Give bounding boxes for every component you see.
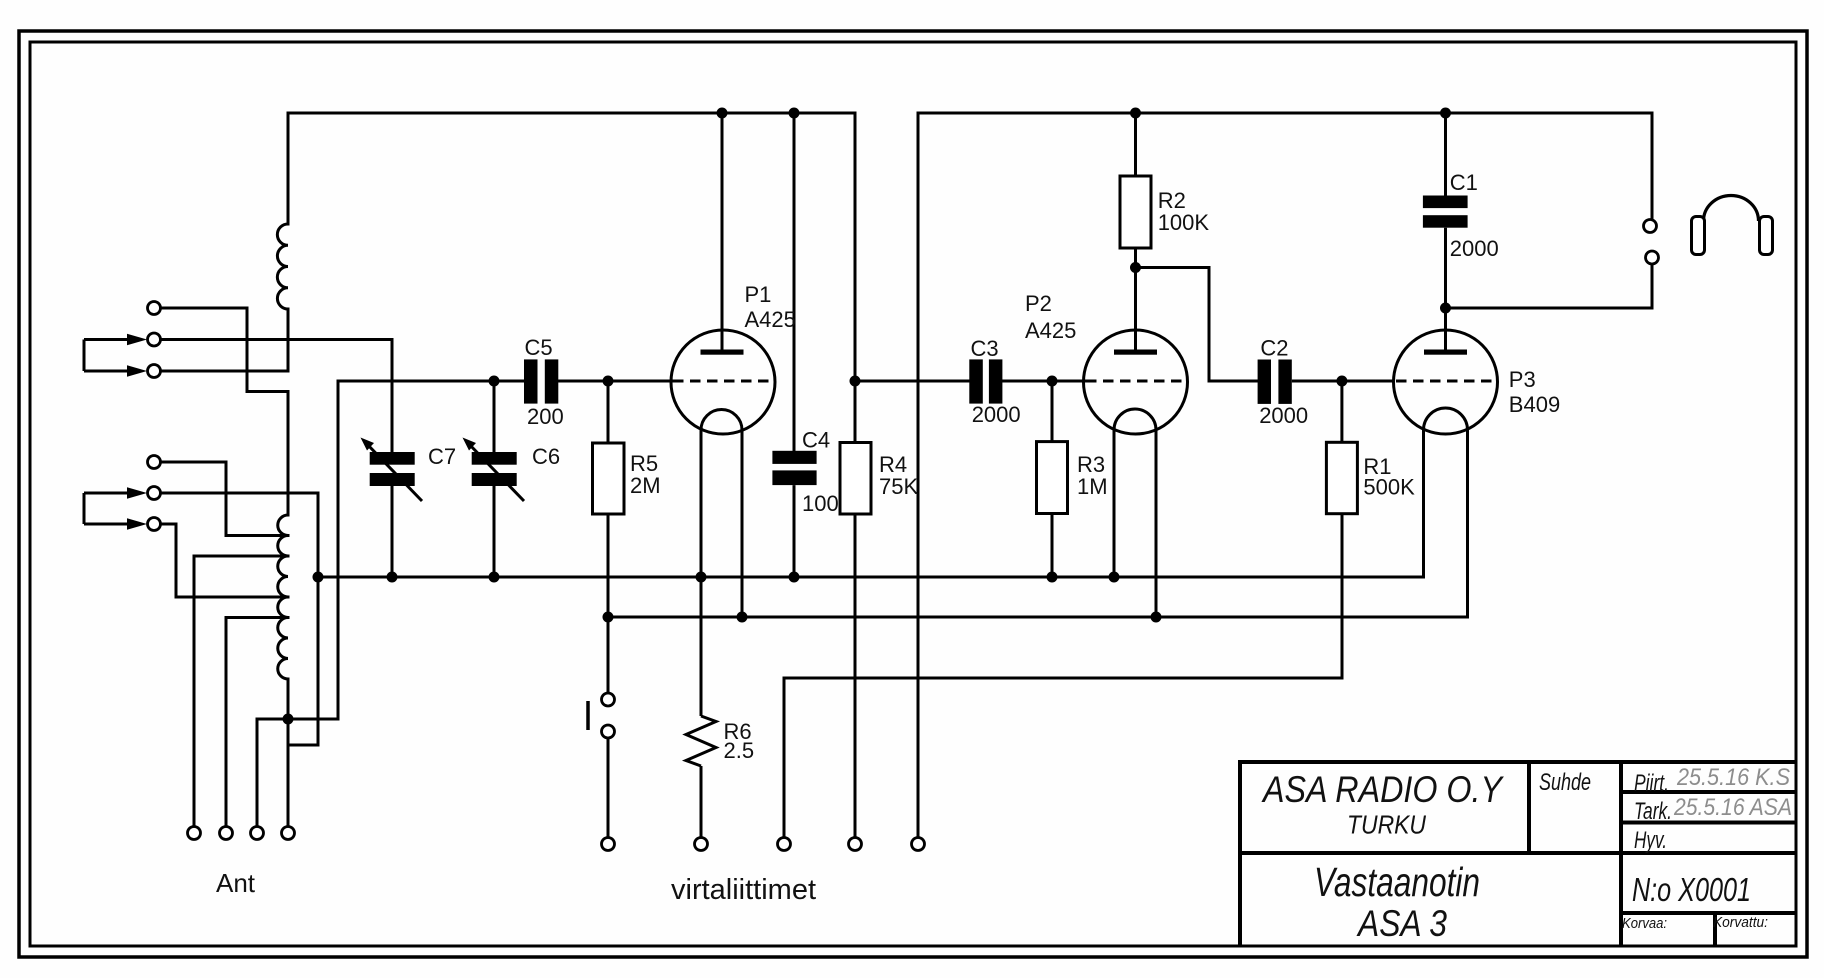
wire: R5 bottom lead to switch — [607, 514, 610, 693]
C6 adjustment arrow — [468, 443, 524, 501]
terminal t3 — [148, 365, 161, 378]
wire: R6 bottom lead — [700, 766, 703, 838]
P3 cathode arc — [1424, 408, 1468, 430]
svg-text:25.5.16 K.S: 25.5.16 K.S — [1676, 764, 1790, 791]
wire: switch to terminal V1 — [607, 739, 610, 838]
svg-text:N:o X0001: N:o X0001 — [1632, 871, 1751, 908]
Ant terminals row — [188, 827, 295, 840]
svg-text:P3: P3 — [1509, 367, 1536, 392]
P2 grid (dashed) — [1086, 380, 1186, 383]
wire: grid net P1 left segment — [338, 380, 524, 383]
wire: R6 top lead from ground bus — [700, 577, 703, 716]
wire: P3 anode riser — [1444, 308, 1447, 350]
terminal t5 — [148, 487, 161, 500]
wire: C5 right plate to P1 grid — [558, 380, 672, 383]
capacitor C3 plates — [969, 359, 1002, 403]
capacitor C2 plates — [1258, 360, 1292, 404]
SECOND STAGE — [855, 381, 1085, 577]
P3 grid (dashed) — [1396, 380, 1496, 383]
arrowhead at t6 — [127, 518, 147, 529]
title block text: company — [1261, 764, 1792, 944]
wire: top bus B (P2/P3 anode supply) — [918, 112, 1652, 115]
triode P2 envelope — [1084, 330, 1188, 434]
wire: junction y719 cross link — [257, 718, 338, 721]
svg-text:Piirt.: Piirt. — [1634, 770, 1669, 797]
svg-text:Ant: Ant — [216, 868, 256, 898]
arrowhead at t5 — [127, 487, 147, 498]
arrow feed line to t3 — [84, 370, 129, 373]
headphones symbol: right earpiece — [1760, 217, 1773, 255]
wire: t3 to coil L1 bottom — [161, 370, 289, 373]
arrow feed line to t2 — [84, 338, 129, 341]
svg-text:2M: 2M — [630, 473, 661, 498]
junction dot C6/grid — [489, 376, 500, 387]
terminal t1 — [148, 302, 161, 315]
wire: t1 step to coil axis — [161, 308, 289, 392]
terminal Ant B — [220, 827, 233, 840]
wire: C6 top riser — [493, 381, 496, 452]
wire: C7 bottom to ground bus — [391, 486, 394, 577]
wire: R1 top lead — [1340, 381, 1343, 442]
headphones symbol: band — [1704, 196, 1759, 221]
headphones symbol: left earpiece — [1692, 217, 1705, 255]
resistor R2 body — [1120, 176, 1151, 248]
wire: C2 to P3 grid — [1292, 380, 1394, 383]
svg-text:Korvattu:: Korvattu: — [1713, 914, 1768, 931]
wire: C1 riser — [1444, 113, 1447, 196]
svg-text:A425: A425 — [1025, 318, 1076, 343]
switch S1 — [602, 693, 615, 738]
junction dot R5/grid — [603, 376, 614, 387]
svg-text:A425: A425 — [745, 307, 796, 332]
capacitor C5 plates — [524, 359, 558, 403]
svg-text:C6: C6 — [532, 444, 560, 469]
junction dot L2 bottom — [283, 714, 294, 725]
arrow bracket lower — [83, 493, 86, 524]
svg-text:2000: 2000 — [972, 402, 1021, 427]
wire: R2 riser — [1134, 113, 1137, 176]
svg-text:Tark.: Tark. — [1634, 798, 1672, 825]
wire: L2 bottom down through junction — [287, 679, 290, 826]
wire: drop to Ant terminal C — [256, 719, 259, 826]
svg-text:75K: 75K — [879, 474, 918, 499]
wire: t4 step to coil L2 tap 1 — [161, 462, 289, 536]
C7 adjustment arrow — [366, 443, 422, 501]
P1 anode bar — [701, 350, 744, 355]
wire: R2 bottom lead — [1134, 248, 1137, 268]
resistor R5 body — [593, 443, 625, 514]
junction dot R3/grid — [1047, 376, 1058, 387]
wire: P1 cathode left leg to ground bus — [700, 430, 703, 577]
wire: P2 anode riser to R2 junction — [1134, 268, 1137, 350]
wire: L2 tap 4 to Ant terminal B — [226, 618, 288, 827]
wire: t6 step to coil L2 tap 3 — [161, 524, 289, 597]
ANTENNA INPUT SECTION — [148, 302, 161, 531]
wire: link y745 to ground riser — [288, 744, 318, 747]
title block frame — [1238, 762, 1796, 946]
arrow feed line to t5 — [84, 492, 129, 495]
junction dots on top buses — [717, 108, 1452, 119]
junction dot R4/grid wire — [850, 376, 861, 387]
resistor R3 body — [1037, 442, 1068, 514]
wire: L2 tap 2 to Ant terminal A — [194, 556, 288, 826]
svg-text:C7: C7 — [428, 444, 456, 469]
wire: R3 bottom lead to ground bus — [1051, 514, 1054, 578]
wire: P2 cathode right leg to filament bus — [1155, 430, 1158, 617]
wire: anode junction to phone jack return — [1446, 265, 1653, 309]
svg-text:C2: C2 — [1260, 336, 1288, 361]
triode P3 envelope — [1394, 330, 1498, 434]
wire: t2 to C7 top — [161, 340, 393, 453]
capacitor C6 (variable) plates — [472, 452, 517, 486]
wire: top bus A left drop to antenna coil L1 — [287, 113, 290, 224]
wire: C6 bottom to ground bus — [493, 486, 496, 577]
wire: L1 bottom to t3 tee — [287, 309, 290, 371]
svg-text:25.5.16 ASA: 25.5.16 ASA — [1673, 794, 1792, 821]
terminal V3 — [778, 838, 791, 851]
P2 cathode arc — [1114, 409, 1156, 430]
coil L2 (secondary with taps) — [278, 515, 288, 679]
GRID CIRCUIT OF P1 — [338, 381, 672, 693]
wire: t1 tee down to coil L2 top — [287, 392, 290, 516]
terminal t2 — [148, 333, 161, 346]
wire: bus B left drop down to terminal 5 — [917, 113, 920, 837]
svg-text:Vastaanotin: Vastaanotin — [1314, 859, 1480, 905]
svg-text:C5: C5 — [525, 335, 553, 360]
svg-text:P2: P2 — [1025, 291, 1052, 316]
svg-text:C3: C3 — [971, 336, 999, 361]
wire: P1 cathode right leg to filament bus — [741, 430, 744, 617]
svg-text:ASA RADIO O.Y: ASA RADIO O.Y — [1261, 769, 1504, 810]
svg-text:virtaliittimet: virtaliittimet — [671, 874, 816, 906]
power terminals row — [602, 838, 925, 851]
terminal Ant C — [251, 827, 264, 840]
terminal V2 — [695, 838, 708, 851]
wire: P2 cathode left leg to ground bus — [1113, 430, 1116, 577]
arrow feed line to t6 — [84, 523, 129, 526]
terminal V4 — [849, 838, 862, 851]
svg-text:Suhde: Suhde — [1539, 769, 1591, 796]
arrowhead at t2 — [127, 334, 147, 345]
P2 anode bar — [1114, 350, 1157, 355]
P1 grid (dashed) — [673, 380, 773, 383]
junction dot R1/grid — [1336, 376, 1347, 387]
capacitor C4 plates — [772, 451, 816, 485]
svg-text:C4: C4 — [802, 428, 830, 453]
svg-text:2000: 2000 — [1450, 236, 1499, 261]
capacitor C7 (variable) plates — [370, 452, 415, 486]
arrowhead at t3 — [127, 365, 147, 376]
terminal t6 — [148, 518, 161, 531]
wire: C4 bottom to ground bus — [793, 485, 796, 577]
wire: P1 anode riser — [721, 113, 724, 350]
svg-text:2.5: 2.5 — [724, 738, 755, 763]
wire: R4 junction to C3 — [855, 380, 969, 383]
svg-text:P1: P1 — [745, 282, 772, 307]
junction dots on filament bus — [603, 612, 1162, 623]
svg-text:100: 100 — [802, 491, 839, 516]
wire: R5 top lead — [607, 381, 610, 443]
wire: C3 to P2 grid — [1003, 380, 1085, 383]
svg-text:100K: 100K — [1158, 210, 1210, 235]
svg-text:1M: 1M — [1077, 474, 1108, 499]
svg-text:B409: B409 — [1509, 392, 1560, 417]
terminal V5 — [912, 838, 925, 851]
svg-text:500K: 500K — [1363, 475, 1415, 500]
wire: C1 bottom lead — [1444, 228, 1447, 308]
resistor R6 (zigzag) — [686, 716, 716, 766]
svg-text:200: 200 — [527, 404, 564, 429]
wire: P3 cathode right leg (filament bus end) — [1466, 430, 1469, 617]
wire: t5 to ground bus riser — [161, 493, 319, 745]
svg-text:Hyv.: Hyv. — [1634, 827, 1667, 854]
svg-text:2000: 2000 — [1259, 403, 1308, 428]
wire: P3 cathode left leg (ground bus end) — [1422, 430, 1425, 577]
resistor R4 body — [840, 443, 871, 515]
wire: C4 riser from top bus A — [793, 113, 796, 451]
capacitor C1 plates — [1423, 196, 1468, 228]
terminal V1 — [602, 838, 615, 851]
phone jack contact upper — [1644, 220, 1657, 233]
wire: P2 anode coupling to C2 — [1136, 268, 1258, 382]
P3 anode bar — [1424, 350, 1467, 355]
svg-text:TURKU: TURKU — [1347, 810, 1426, 840]
junction dot P2 anode/R2 — [1130, 262, 1141, 273]
wire: riser x338 to grid wire — [337, 381, 340, 719]
BUSES — [318, 514, 1468, 837]
wire: ground bus (y577) — [318, 576, 1424, 579]
wire: bus B right drop to phone jack — [1651, 113, 1654, 219]
wire: filament bus (y617) — [608, 616, 1468, 619]
wire: top bus A (anode supply to P1 section) — [288, 112, 855, 115]
svg-text:Korvaa:: Korvaa: — [1622, 915, 1667, 932]
terminal Ant A — [188, 827, 201, 840]
wire: R3 top lead — [1051, 381, 1054, 442]
svg-text:C1: C1 — [1450, 170, 1478, 195]
wire: grid-bias bus (y678) — [784, 514, 1342, 837]
wire: R4 riser from top bus A down to terminal 4 — [854, 113, 857, 443]
svg-text:ASA 3: ASA 3 — [1356, 903, 1447, 944]
resistor R1 body — [1326, 442, 1357, 513]
terminal t4 — [148, 456, 161, 469]
junction dots on ground bus — [313, 572, 1120, 583]
junction dot P3 anode/C1/phones — [1440, 303, 1451, 314]
phone jack contact lower — [1646, 251, 1659, 264]
switch S1 lever mark — [586, 701, 590, 730]
terminal Ant D — [282, 827, 295, 840]
triode P1 envelope — [671, 330, 775, 434]
coil L1 (antenna primary) — [277, 224, 288, 309]
P1 cathode arc — [701, 409, 742, 430]
arrow bracket upper — [83, 340, 86, 372]
